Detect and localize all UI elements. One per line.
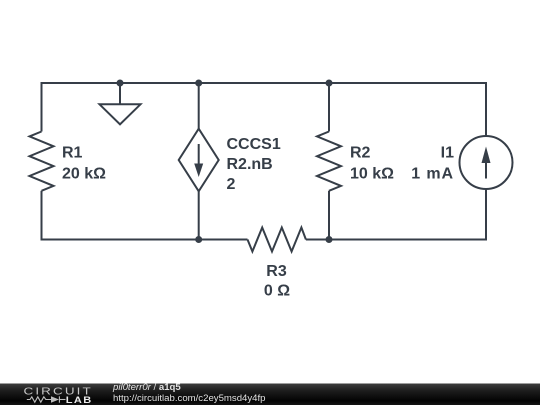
svg-text:R3: R3 (266, 263, 287, 280)
resistor R2 (317, 132, 341, 191)
wire left branch above R1 (41, 82, 43, 132)
svg-text:10 kΩ: 10 kΩ (350, 166, 394, 183)
svg-text:20 kΩ: 20 kΩ (62, 166, 106, 183)
wire CCCS branch bottom (198, 191, 200, 239)
svg-text:R2: R2 (350, 145, 371, 162)
resistor R3 (248, 228, 306, 252)
svg-text:R1: R1 (62, 145, 83, 162)
node junction CCCS/bottom (195, 236, 202, 243)
svg-text:pil0terr0r / a1q5: pil0terr0r / a1q5 (112, 382, 181, 393)
svg-text:2: 2 (227, 176, 236, 193)
node junction R2/bottom (326, 236, 333, 243)
svg-text:1 mA: 1 mA (411, 166, 454, 183)
svg-text:LAB: LAB (66, 396, 93, 405)
wire bottom rail left of R3 (42, 239, 248, 241)
svg-text:CCCS1: CCCS1 (227, 136, 281, 153)
node junction R2/top (326, 80, 333, 87)
node junction ground/top (117, 80, 124, 87)
wire I1 branch bottom (485, 189, 487, 241)
footer watermark bar (0, 384, 540, 405)
wire CCCS branch top (198, 83, 200, 129)
current source I1 (460, 136, 513, 189)
svg-text:I1: I1 (441, 145, 454, 162)
svg-text:http://circuitlab.com/c2ey5msd: http://circuitlab.com/c2ey5msd4y4fp (113, 393, 266, 404)
resistor R1 (30, 132, 54, 191)
svg-text:R2.nB: R2.nB (227, 156, 273, 173)
wire R2 branch top (328, 83, 330, 132)
CCCS source CCCS1 (179, 129, 219, 192)
wire top rail (42, 82, 487, 84)
wire R2 branch bottom (328, 191, 330, 240)
svg-text:0 Ω: 0 Ω (264, 282, 290, 299)
node junction CCCS/top (195, 80, 202, 87)
ground (100, 83, 141, 124)
footer credit text (112, 382, 266, 404)
wire I1 branch top (485, 82, 487, 136)
wire bottom rail right of R3 (306, 239, 486, 241)
CircuitLab logo (24, 385, 93, 405)
wire left branch below R1 (41, 191, 43, 241)
